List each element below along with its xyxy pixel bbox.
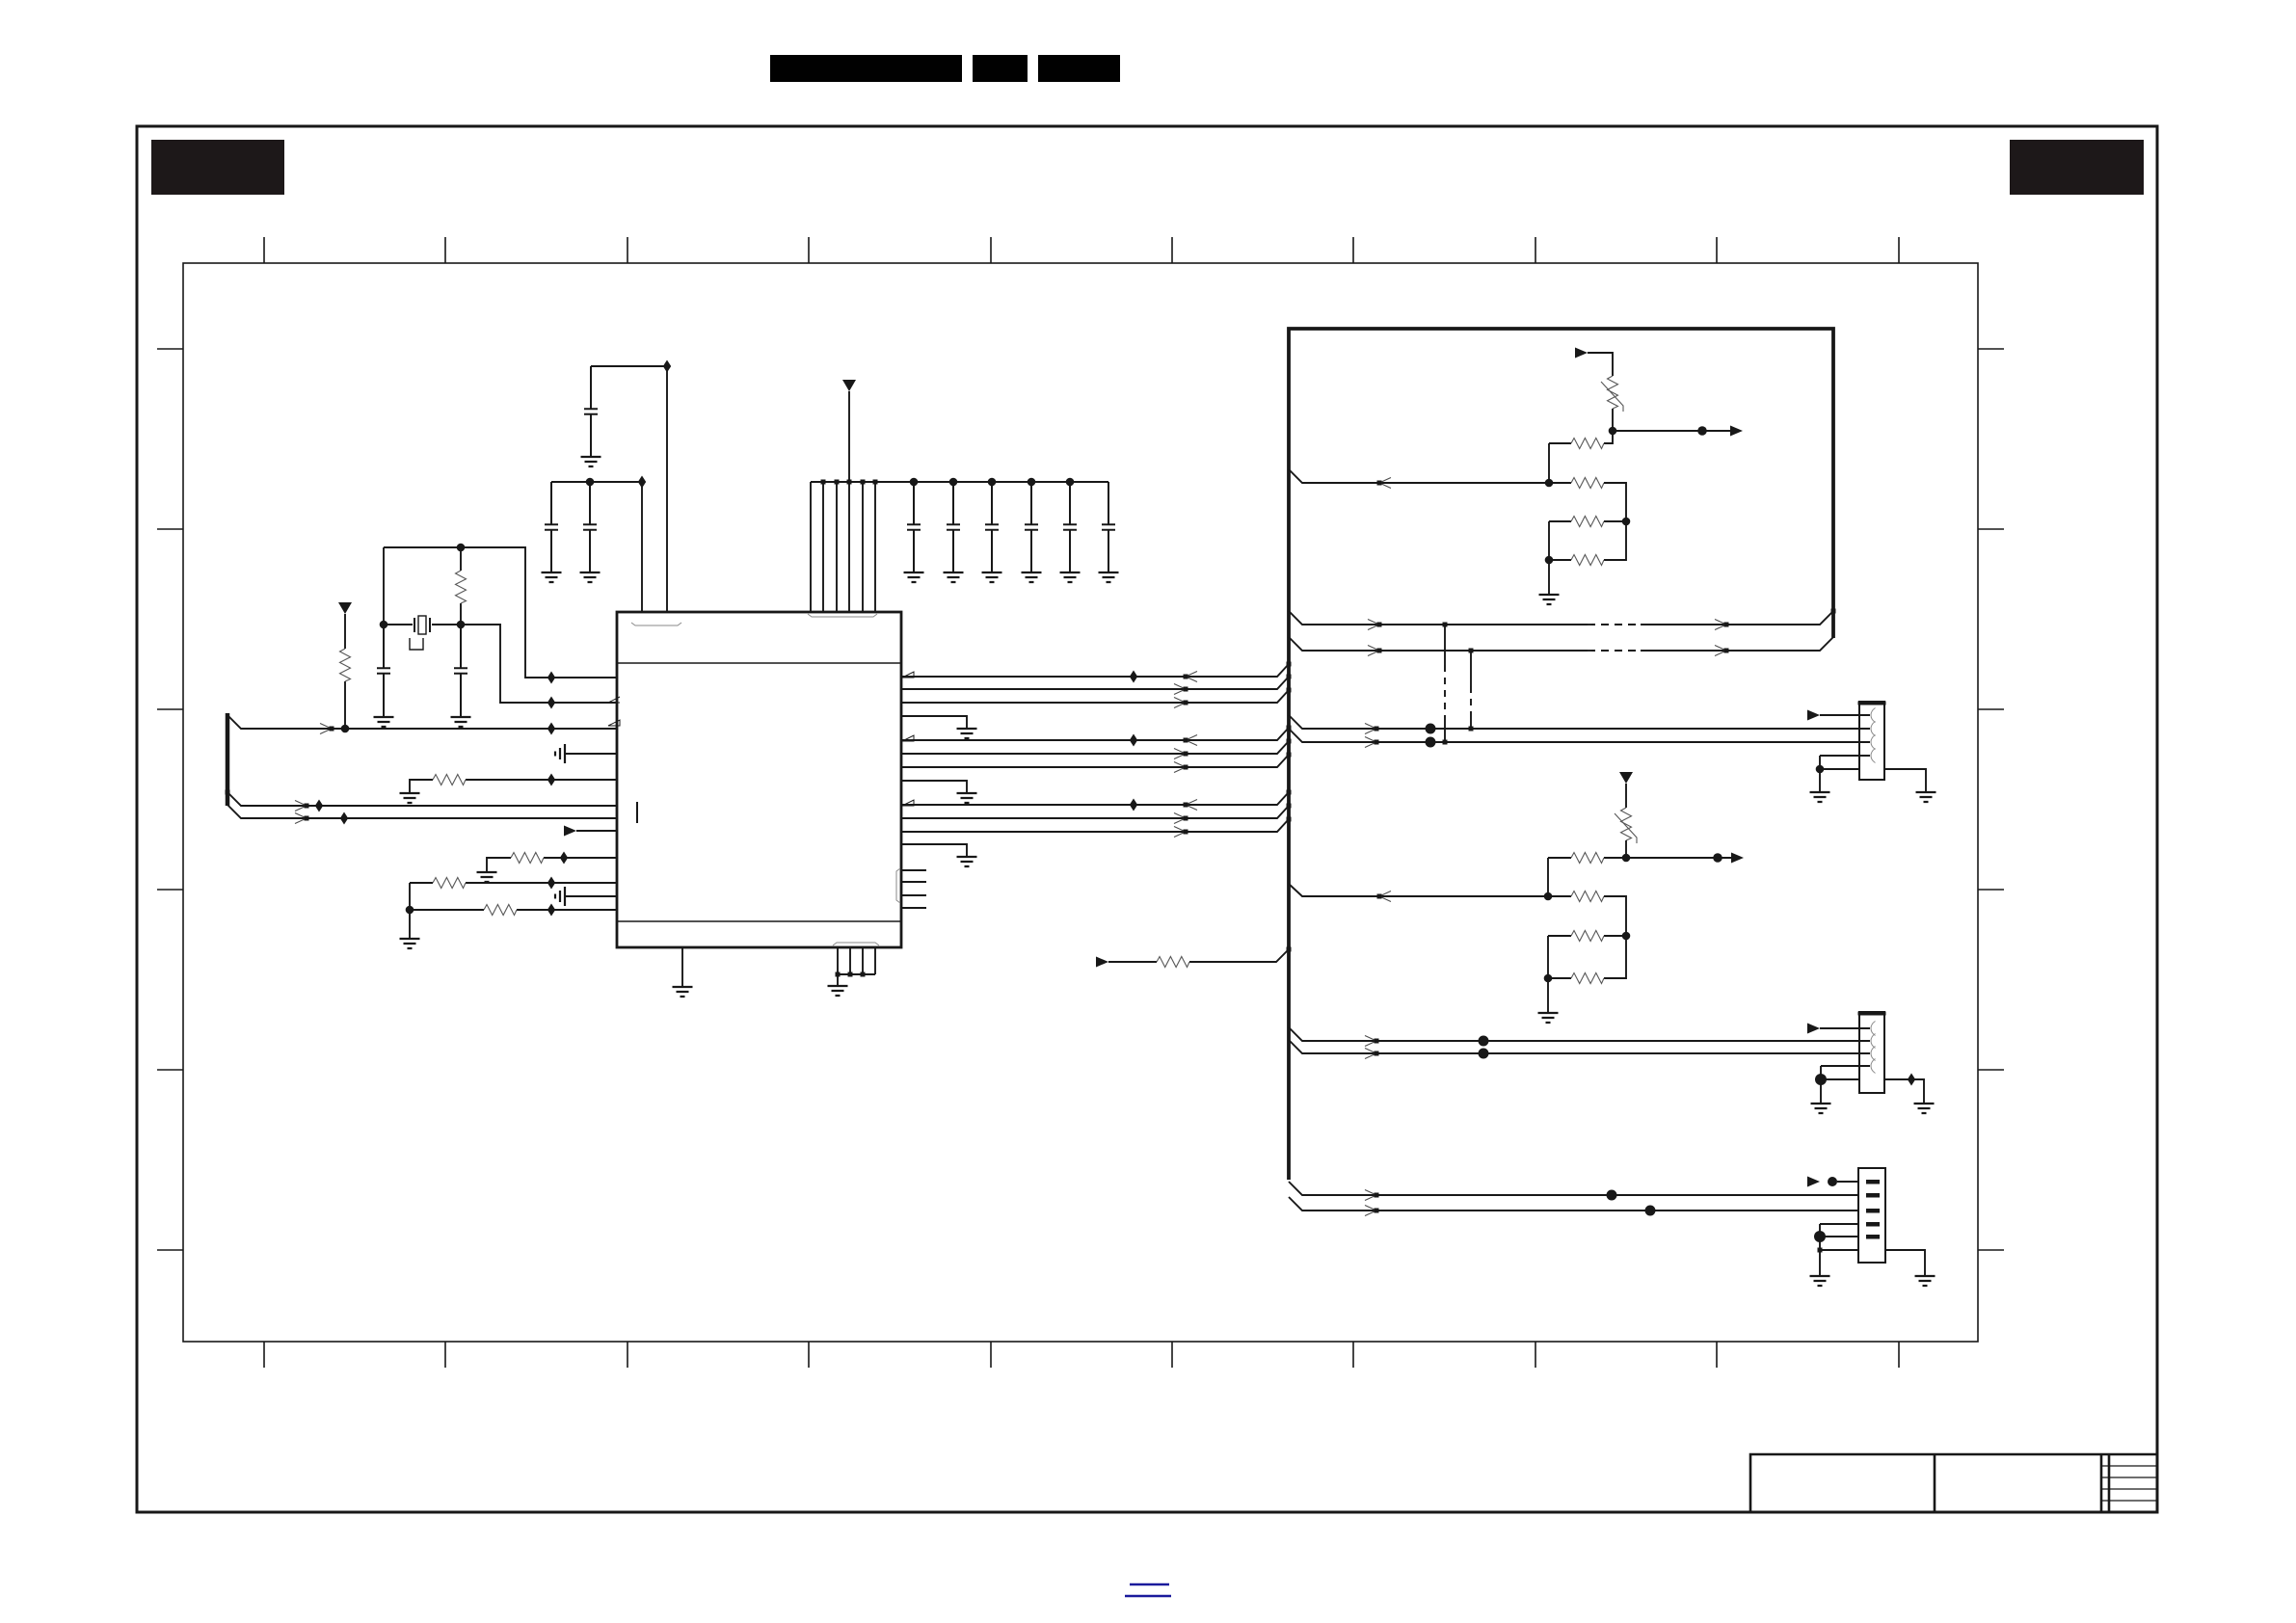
- wire J3 gnd pins: [1820, 1224, 1858, 1276]
- diamond right 702: [1130, 671, 1137, 683]
- ground C7: [944, 572, 964, 582]
- flow mark > J3a: [1365, 1190, 1379, 1201]
- ground bottom tie: [828, 986, 848, 996]
- wire loop A dashed: [1588, 624, 1641, 625]
- wire pin 8: [576, 830, 617, 832]
- supply junction square: [873, 480, 878, 485]
- flow mark < N1: [1377, 478, 1392, 489]
- wire IC right 863: [901, 819, 1289, 832]
- flow mark > right 796: [1174, 762, 1188, 773]
- capacitor C8: [985, 482, 999, 572]
- ground J1 left: [1810, 792, 1830, 802]
- resistor R15 leads: [1548, 936, 1626, 978]
- ground C8: [982, 572, 1002, 582]
- capacitor C4: [545, 482, 558, 572]
- pin arrow glyph right 702: [902, 672, 914, 678]
- signal arrow J3: [1807, 1177, 1820, 1187]
- VR1 adjust stroke: [1601, 382, 1623, 412]
- wire IC right 768: [901, 728, 1289, 740]
- wire N2 mid: [1625, 840, 1627, 858]
- border tick top 7: [1352, 237, 1354, 263]
- node C5 dot: [586, 478, 595, 487]
- wire N2 left leg: [1547, 936, 1549, 1013]
- redacted header bar 1: [770, 55, 962, 82]
- signal arrow N1 in: [1575, 348, 1588, 359]
- capacitor C10: [1063, 482, 1077, 572]
- flow mark < N2: [1377, 891, 1392, 902]
- bus merge square loopA: [1831, 609, 1836, 614]
- ground J3 left: [1810, 1276, 1830, 1286]
- signal arrow J1: [1807, 710, 1820, 721]
- flow mark > loopA-1: [1368, 620, 1382, 630]
- flow mark > loopA-2: [1715, 620, 1729, 630]
- wire N1 mid: [1612, 409, 1614, 431]
- border tick right 2: [1978, 528, 2004, 530]
- node rail dot: [988, 478, 997, 487]
- wire pin 10 via R5: [410, 882, 617, 884]
- diamond line2: [315, 800, 323, 812]
- signal arrow J2: [1807, 1024, 1820, 1034]
- ground (rotated) pin 4: [555, 744, 565, 763]
- border tick left 3: [157, 708, 183, 710]
- flow mark > right 782: [1174, 749, 1188, 759]
- wire N2 R12-R13: [1547, 858, 1549, 896]
- ground stub 743: [957, 729, 977, 738]
- bottom tie square: [861, 972, 866, 977]
- wire OSC node left: [383, 547, 385, 625]
- border tick top 5: [990, 237, 992, 263]
- wire IC right 849: [901, 806, 1289, 818]
- node J3 gnd dot: [1814, 1231, 1826, 1242]
- diamond line3: [340, 812, 348, 825]
- ground C9: [1022, 572, 1042, 582]
- wire N1 top: [1588, 353, 1613, 376]
- border tick top 1: [263, 237, 265, 263]
- flow mark < right 835: [1184, 800, 1198, 811]
- border tick left 2: [157, 528, 183, 530]
- wire IC right 729: [901, 690, 1289, 703]
- wire J1 gnd pins: [1820, 756, 1859, 792]
- ground R5/R6: [400, 939, 420, 948]
- wire N1 R9 right: [1604, 483, 1626, 521]
- node J1 gnd dot: [1816, 765, 1825, 774]
- wire supply drop 3: [836, 482, 838, 612]
- pin arrow glyph pin2: [608, 697, 620, 703]
- wire supply rail: [811, 481, 1108, 483]
- wire to J2 pin2: [1289, 1027, 1859, 1041]
- border tick bottom 9: [1716, 1342, 1718, 1368]
- resistor R8 leads: [1549, 431, 1613, 443]
- resistor R15: [1571, 973, 1604, 984]
- wire VDD2 feed: [848, 391, 850, 482]
- bus merge square: [1287, 817, 1292, 822]
- wire IC right 702: [901, 664, 1289, 677]
- resistor R1 leads: [460, 547, 462, 625]
- diamond pin T2: [663, 360, 671, 373]
- node J3b dot: [1645, 1206, 1656, 1216]
- footer link underline 1: [1130, 1583, 1169, 1585]
- border tick right 3: [1978, 708, 2004, 710]
- wire pin 4: [565, 753, 617, 755]
- pin arrow glyph right 835: [902, 800, 914, 806]
- resistor R13: [1571, 891, 1604, 902]
- flow mark > loopB-1: [1368, 646, 1382, 656]
- wire N2 R13 right: [1604, 896, 1626, 936]
- bus bar left: [226, 713, 230, 806]
- resistor VR1 (variable): [1608, 376, 1618, 409]
- ground J2 right: [1914, 1104, 1935, 1113]
- wire R5/R6 vertical: [409, 883, 411, 939]
- node R2/bus dot: [341, 725, 350, 733]
- bus loop (thick): [1289, 329, 1833, 1180]
- test point N1: [1697, 426, 1707, 436]
- wire supply drop 6: [874, 482, 876, 612]
- flow mark > right 863: [1174, 827, 1188, 838]
- wire pin T1 net: [551, 482, 642, 612]
- wire supply drop 2: [822, 482, 824, 612]
- resistor R2: [340, 649, 351, 681]
- border tick bottom 1: [263, 1342, 265, 1368]
- border tick top 10: [1898, 237, 1900, 263]
- ground N2: [1538, 1013, 1559, 1023]
- wire stub pin 903: [901, 869, 926, 871]
- wire supply drop 5: [862, 482, 864, 612]
- crystal case mark: [410, 638, 423, 650]
- redacted header bar 2: [973, 55, 1028, 82]
- node rail dot: [949, 478, 958, 487]
- signal arrow pin 8: [564, 826, 576, 837]
- capacitor C9: [1025, 482, 1038, 572]
- ground C10: [1060, 572, 1081, 582]
- border tick top 3: [627, 237, 628, 263]
- border tick right 1: [1978, 348, 2004, 350]
- node R5/R6 dot: [406, 906, 414, 915]
- diamond pin 2: [547, 697, 555, 709]
- diamond pin 1: [547, 672, 555, 684]
- node N2 par right dot: [1622, 932, 1631, 941]
- wire crossover B top: [1470, 651, 1472, 686]
- capacitor C1: [377, 625, 390, 717]
- wire N1 left leg: [1548, 521, 1550, 595]
- border tick bottom 10: [1898, 1342, 1900, 1368]
- border tick right 6: [1978, 1249, 2004, 1251]
- bus merge square R7: [1287, 947, 1292, 952]
- crossover A square top: [1443, 623, 1448, 627]
- wire crossover B dashed: [1470, 686, 1472, 715]
- wire OSC1 to IC pin: [384, 547, 617, 678]
- border tick top 8: [1535, 237, 1536, 263]
- ground C5: [580, 572, 601, 582]
- wire J2 pin1: [1820, 1027, 1859, 1029]
- border tick bottom 6: [1171, 1342, 1173, 1368]
- node N1 in dot: [1545, 479, 1554, 488]
- wire J2 shield: [1884, 1079, 1924, 1104]
- supply junction square: [821, 480, 826, 485]
- connector J2: [1858, 1012, 1886, 1093]
- wire pin 12 via R6: [410, 909, 617, 911]
- wire stub pin 929: [901, 894, 926, 896]
- wire pin B3: [849, 947, 851, 974]
- bus merge square: [1287, 753, 1292, 758]
- outer page frame: [137, 126, 2157, 1512]
- ground C11: [1099, 572, 1119, 582]
- resistor R6: [484, 905, 517, 916]
- border tick left 1: [157, 348, 183, 350]
- border tick bottom 4: [808, 1342, 810, 1368]
- wire supply drop 4: [848, 482, 850, 612]
- crystal X1: [414, 616, 430, 634]
- wire crossover B bottom: [1470, 715, 1472, 729]
- bus junction square: [226, 790, 230, 795]
- wire bottom tie: [838, 973, 875, 975]
- wire to J3 pin2: [1289, 1182, 1858, 1195]
- border tick right 4: [1978, 889, 2004, 891]
- border tick top 2: [444, 237, 446, 263]
- node J2 gnd dot: [1815, 1074, 1827, 1085]
- border tick right 5: [1978, 1069, 2004, 1071]
- wire crossover A bottom: [1444, 718, 1446, 742]
- diamond pin 12: [547, 904, 555, 917]
- wire N2 input: [1289, 884, 1571, 896]
- border tick left 4: [157, 889, 183, 891]
- bus merge square: [1287, 739, 1292, 744]
- footer link underline 2: [1125, 1595, 1171, 1597]
- diamond pin 3: [547, 723, 555, 735]
- wire IC right 796: [901, 755, 1289, 767]
- wire ground stub 743: [901, 716, 967, 729]
- resistor VR2 (variable): [1621, 808, 1632, 840]
- ground C4: [542, 572, 562, 582]
- bus merge square: [1287, 726, 1292, 731]
- supply junction square: [835, 480, 840, 485]
- border tick bottom 5: [990, 1342, 992, 1368]
- wire pin 5 via R3: [410, 780, 617, 793]
- wire to J3 pin3: [1289, 1197, 1858, 1211]
- ground C1: [374, 717, 394, 727]
- wire to J1 pin3: [1289, 729, 1859, 742]
- resistor R8: [1571, 439, 1604, 449]
- resistor R2 leads: [344, 614, 346, 729]
- signal arrow R7: [1096, 957, 1108, 968]
- wire pin B5: [874, 947, 876, 974]
- wire crossover A dashed: [1444, 665, 1446, 718]
- resistor R1: [456, 571, 467, 603]
- wire crossover A top: [1444, 625, 1446, 665]
- wire N1 input: [1289, 469, 1571, 483]
- bus merge square: [1287, 804, 1292, 809]
- wire N2 top: [1625, 784, 1627, 808]
- bus merge square: [1287, 675, 1292, 679]
- node J1b dot: [1426, 737, 1436, 748]
- border tick top 4: [808, 237, 810, 263]
- node rail dot: [910, 478, 919, 487]
- VR2 adjust stroke: [1615, 813, 1637, 843]
- wire bottom tie drop: [837, 974, 839, 986]
- supply junction square: [861, 480, 866, 485]
- wire R7 net: [1108, 949, 1289, 962]
- wire bus line 3 (pin7): [227, 805, 617, 818]
- node N1 out dot: [1609, 427, 1617, 436]
- border tick bottom 3: [627, 1342, 628, 1368]
- capacitor C6: [907, 482, 921, 572]
- bus merge square: [1287, 688, 1292, 693]
- ground stub 876: [957, 857, 977, 866]
- ground C2: [451, 717, 471, 727]
- wire pin B1: [681, 947, 683, 987]
- resistor R3: [433, 775, 466, 785]
- wire stub pin 942: [901, 907, 926, 909]
- bottom tie square: [836, 972, 841, 977]
- flow mark > J1b: [1365, 737, 1379, 748]
- node J2b dot: [1479, 1049, 1489, 1059]
- pin arrow glyph pin3: [608, 720, 620, 726]
- resistor R14: [1571, 931, 1604, 942]
- wire IC right 715: [901, 677, 1289, 689]
- flow mark > right 849: [1174, 813, 1188, 824]
- wire loop B dashed: [1588, 650, 1641, 652]
- test point N2: [1713, 853, 1722, 863]
- wire pin T2 net: [591, 366, 667, 612]
- border tick top 6: [1171, 237, 1173, 263]
- connector J3: [1858, 1168, 1885, 1263]
- crossover B square bottom: [1469, 727, 1474, 732]
- node N1 par left dot: [1545, 556, 1554, 565]
- node N2 out dot: [1622, 854, 1631, 863]
- diamond right 768: [1130, 734, 1137, 747]
- resistor R12: [1571, 853, 1604, 864]
- node J2a dot: [1479, 1036, 1489, 1047]
- ground R3: [400, 793, 420, 803]
- ground C3: [581, 457, 601, 466]
- wire pin B2: [837, 947, 839, 974]
- wire to J2 pin3: [1289, 1040, 1859, 1053]
- wire bus line 1 (pin3): [227, 715, 617, 729]
- border tick left 5: [157, 1069, 183, 1071]
- node rail dot: [1066, 478, 1075, 487]
- flow mark > loopB-2: [1715, 646, 1729, 656]
- power arrow VDD1: [338, 602, 352, 614]
- capacitor C11: [1102, 482, 1115, 572]
- capacitor C5: [583, 482, 597, 572]
- ground J1 right: [1916, 792, 1936, 802]
- signal arrow N1 out: [1730, 426, 1743, 437]
- ground N1: [1539, 595, 1560, 604]
- flow mark > right 715: [1174, 684, 1188, 695]
- wire J3 pin1: [1837, 1181, 1858, 1183]
- wire ground stub 810: [901, 781, 967, 793]
- signal arrow N2 out: [1731, 853, 1744, 864]
- border tick top 9: [1716, 237, 1718, 263]
- resistor R7: [1157, 957, 1189, 968]
- J3 gnd square: [1818, 1248, 1823, 1253]
- diamond pin 10: [547, 877, 555, 890]
- border tick left 6: [157, 1249, 183, 1251]
- crossover B square top: [1469, 649, 1474, 653]
- capacitor C7: [947, 482, 960, 572]
- flow mark > J1a: [1365, 724, 1379, 734]
- wire to J1 pin2: [1289, 715, 1859, 729]
- wire pin 9 via R4: [487, 858, 617, 872]
- bus merge square: [1287, 790, 1292, 795]
- wire crystal net: [384, 625, 617, 703]
- resistor R10 leads: [1549, 520, 1626, 522]
- op-amp U1 (main IC): [617, 612, 901, 947]
- connector J1: [1858, 702, 1886, 780]
- wire N1 out: [1613, 430, 1730, 432]
- resistor R12 leads: [1548, 857, 1626, 859]
- pin arrow glyph right 768: [902, 735, 914, 741]
- wire J2 gnd pins: [1821, 1066, 1859, 1104]
- wire N2 out: [1626, 857, 1731, 859]
- node J1a dot: [1426, 724, 1436, 734]
- supply junction square: [847, 480, 852, 485]
- wire IC right 782: [901, 741, 1289, 754]
- node XTAL-B dot: [457, 621, 466, 629]
- ground J3 right: [1915, 1276, 1936, 1286]
- ground C6: [904, 572, 924, 582]
- wire supply drop 1: [810, 482, 812, 612]
- resistor R11 leads: [1549, 521, 1626, 560]
- node J3 dot: [1828, 1177, 1837, 1186]
- resistor R14 leads: [1548, 935, 1626, 937]
- resistor R4: [511, 853, 544, 864]
- flow mark > line2: [295, 801, 309, 811]
- diamond pin 5: [547, 774, 555, 786]
- ground R4: [477, 872, 497, 882]
- redacted header bar 3: [1038, 55, 1120, 82]
- crossover A square bottom: [1443, 740, 1448, 745]
- redacted label top-right: [2010, 140, 2144, 195]
- diamond J2 shield: [1908, 1074, 1915, 1086]
- ground J2 left: [1811, 1104, 1831, 1113]
- bottom tie square: [848, 972, 853, 977]
- diamond right 835: [1130, 799, 1137, 811]
- resistor R5: [433, 878, 466, 889]
- wire pin 11: [565, 895, 617, 897]
- wire loop A: [1289, 611, 1833, 625]
- resistor R11: [1571, 555, 1604, 566]
- ground stub 810: [957, 793, 977, 803]
- ground pin B1: [673, 987, 693, 997]
- wire IC right 835: [901, 792, 1289, 805]
- wire J1 pin1: [1820, 714, 1859, 716]
- node J3a dot: [1607, 1190, 1617, 1201]
- resistor R9: [1571, 478, 1604, 489]
- node N1 par right dot: [1622, 518, 1631, 526]
- capacitor C3: [584, 366, 598, 457]
- border tick bottom 8: [1535, 1342, 1536, 1368]
- resistor R10: [1571, 517, 1604, 527]
- wire stub pin 915: [901, 881, 926, 883]
- node rail dot: [1028, 478, 1036, 487]
- power arrow N2 in: [1619, 772, 1633, 784]
- diamond pin T1: [638, 476, 646, 489]
- diamond pin 9: [560, 852, 568, 865]
- wire N1 R8-R9: [1548, 443, 1550, 483]
- inner drawing border: [183, 263, 1978, 1342]
- wire loop B: [1289, 637, 1833, 651]
- wire J1 shield: [1884, 769, 1926, 792]
- redacted label top-left: [151, 140, 284, 195]
- flow mark > line1: [320, 724, 334, 734]
- title block: [1750, 1454, 2157, 1512]
- flow mark < right 702: [1184, 672, 1198, 682]
- power arrow VDD2: [842, 380, 856, 391]
- flow mark > right 729: [1174, 698, 1188, 708]
- node OSC1 dot: [457, 544, 466, 552]
- flow mark > J2a: [1365, 1036, 1379, 1047]
- flow mark > J2b: [1365, 1049, 1379, 1059]
